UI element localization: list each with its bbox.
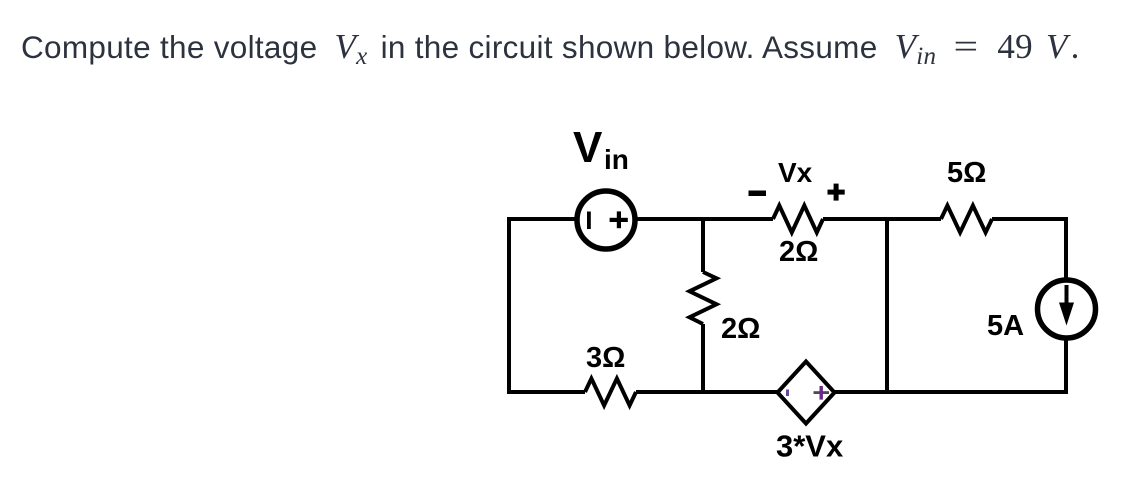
current source arrow shaft	[1065, 285, 1069, 307]
current source 5A (circle)	[1038, 280, 1096, 338]
wire: bottom segment from dependent source to right corner	[834, 390, 1066, 394]
voltage source Vin (circle)	[577, 191, 635, 249]
resistor 2ohm (top, Vx across it)	[773, 206, 823, 233]
svg-text:5Ω: 5Ω	[947, 157, 986, 189]
label minus polarity of Vx	[749, 191, 767, 197]
svg-text:V: V	[573, 123, 603, 172]
svg-text:2Ω: 2Ω	[779, 236, 818, 268]
resistor 2ohm (middle vertical)	[690, 272, 717, 324]
wire: bottom segment from 3ohm resistor to dependent source	[636, 390, 779, 394]
wire: left vertical side	[507, 217, 511, 394]
wire: bottom-left segment to 3ohm resistor	[509, 390, 585, 394]
dependent source plus sign	[814, 386, 830, 400]
dependent source minus mark	[786, 390, 789, 397]
voltage source Vin minus terminal bar	[587, 212, 591, 230]
wire: right vertical lower segment from current source	[1064, 338, 1068, 394]
label plus polarity of Vx	[828, 184, 845, 201]
current source arrow head	[1059, 303, 1074, 326]
wire: top-left segment from left corner to voltage source	[509, 217, 576, 221]
wire: top segment from 2ohm resistor to 5ohm resistor (through node at x=887)	[823, 217, 941, 221]
wire: second vertical branch at x=887 from top wire to bottom wire	[885, 219, 889, 392]
svg-text:Vx: Vx	[778, 157, 813, 188]
wire: right vertical upper segment to current source	[1064, 217, 1068, 280]
dependent source 3*Vx (diamond)	[778, 362, 835, 424]
svg-text:3Ω: 3Ω	[586, 342, 625, 374]
label Vin	[573, 123, 629, 175]
resistor 5ohm (top right)	[941, 206, 992, 233]
svg-text:2Ω: 2Ω	[721, 313, 760, 345]
svg-text:5A: 5A	[987, 310, 1024, 342]
svg-text:3*Vx: 3*Vx	[776, 429, 844, 464]
voltage source Vin plus sign	[610, 211, 628, 228]
wire: middle vertical branch lower (2ohm vertical resistor to bottom node)	[701, 324, 705, 394]
wire: top-right segment from 5ohm resistor to right corner	[992, 217, 1066, 221]
resistor 3ohm (bottom left)	[585, 379, 636, 406]
wire: top segment from voltage source to 2ohm resistor	[637, 217, 773, 221]
svg-text:in: in	[604, 144, 629, 175]
wire: middle vertical branch upper (node at top to 2ohm vertical resistor)	[701, 219, 705, 272]
problem statement text	[21, 26, 1080, 72]
